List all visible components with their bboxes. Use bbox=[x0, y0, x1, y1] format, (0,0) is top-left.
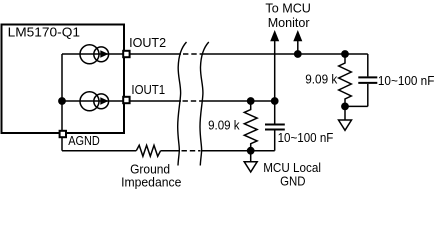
svg-text:IOUT2: IOUT2 bbox=[129, 35, 166, 50]
wire IOUT2 row right bbox=[203, 53, 368, 55]
resistor R1 9.09 k bbox=[339, 54, 352, 106]
node junction IOUT1-R2 bbox=[247, 97, 255, 105]
wire R2-C2 bottom bbox=[251, 150, 275, 152]
cable break curve right bbox=[200, 42, 209, 166]
arrow to MCU monitor from IOUT1 bbox=[270, 30, 279, 101]
wire AGND vertical stub bbox=[61, 138, 63, 151]
resistor ground impedance bbox=[136, 145, 160, 156]
svg-text:Monitor: Monitor bbox=[268, 15, 311, 30]
svg-text:AGND: AGND bbox=[68, 133, 100, 148]
wire IOUT2 row (pin to cable break) bbox=[129, 53, 181, 55]
wire AGND row right bbox=[201, 150, 251, 152]
arrow to MCU monitor from IOUT2 bbox=[293, 30, 302, 54]
node junction bus-IOUT1 bbox=[58, 97, 66, 105]
svg-text:IOUT1: IOUT1 bbox=[131, 82, 165, 97]
ground symbol top right bbox=[339, 106, 352, 130]
capacitor C1 10~100 nF bbox=[358, 54, 377, 106]
wire internal vertical bus bbox=[61, 54, 63, 133]
wire IOUT2 dashed in cable break bbox=[183, 53, 202, 55]
node junction IOUT2-arrow bbox=[294, 50, 302, 58]
wire IOUT1 dashed in cable break bbox=[183, 100, 203, 102]
node junction IOUT2-R1 bbox=[341, 50, 349, 58]
current source CS2 (IOUT1 monitor) bbox=[80, 92, 109, 111]
current source CS1 arrow bbox=[100, 50, 108, 57]
pin IOUT1 bbox=[123, 97, 129, 103]
wire AGND row after resistor bbox=[161, 150, 180, 152]
resistor R2 9.09 k bbox=[244, 101, 257, 151]
ground symbol MCU local GND bbox=[244, 151, 257, 172]
svg-text:GND: GND bbox=[280, 174, 305, 189]
wire IOUT1 row right bbox=[203, 100, 275, 102]
IC box U1 LM5170-Q1 bbox=[2, 25, 125, 134]
svg-text:10~100 nF: 10~100 nF bbox=[278, 130, 334, 145]
node junction IOUT1-C2 bbox=[271, 97, 279, 105]
wire AGND dashed in cable break bbox=[182, 150, 201, 152]
wire IOUT1 row (pin to cable break) bbox=[129, 100, 181, 102]
svg-text:Impedance: Impedance bbox=[121, 175, 181, 190]
current source CS1 (IOUT2 monitor) bbox=[80, 45, 109, 64]
svg-text:9.09 k: 9.09 k bbox=[208, 117, 240, 132]
svg-text:10~100 nF: 10~100 nF bbox=[378, 73, 435, 88]
svg-text:LM5170-Q1: LM5170-Q1 bbox=[8, 24, 80, 39]
pin IOUT2 bbox=[123, 51, 129, 57]
svg-text:To MCU: To MCU bbox=[265, 0, 311, 15]
pin AGND bbox=[60, 131, 66, 137]
node junction R1 bottom bbox=[341, 103, 349, 111]
capacitor C2 10~100 nF bbox=[265, 101, 285, 151]
current source CS2 arrow bbox=[100, 97, 108, 104]
wire CS2 through lead bbox=[62, 100, 124, 102]
svg-text:MCU Local: MCU Local bbox=[263, 160, 321, 175]
wire CS1 through lead bbox=[62, 53, 124, 55]
node junction R2 bottom (MCU local gnd) bbox=[247, 147, 255, 155]
svg-text:9.09 k: 9.09 k bbox=[305, 71, 338, 86]
wire R1-C1 bottom bbox=[345, 105, 368, 107]
cable break curve left bbox=[178, 42, 187, 166]
wire AGND row to resistor bbox=[62, 150, 136, 152]
